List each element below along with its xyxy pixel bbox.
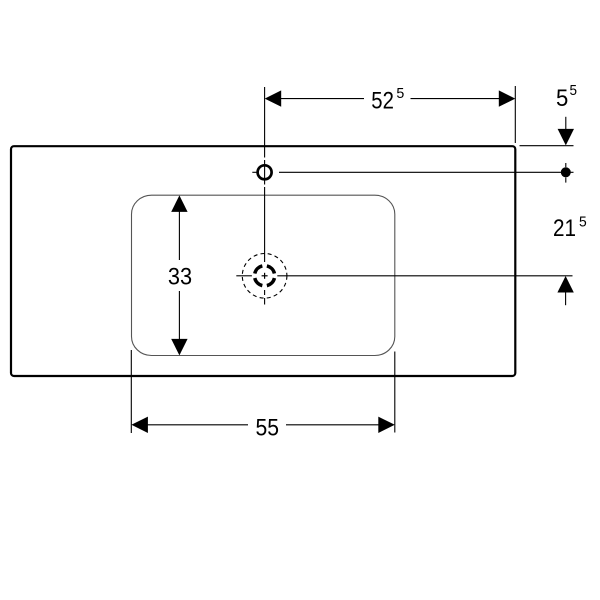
- tap hole: [258, 165, 272, 179]
- arrowhead left 55: [131, 417, 148, 433]
- vertical centerline through tap hole and drain: [264, 87, 266, 305]
- drain center plus mark: [262, 273, 268, 279]
- dimension line 52.5: [279, 98, 500, 100]
- arrowhead down 33: [171, 339, 187, 356]
- svg-text:21: 21: [553, 215, 576, 242]
- drain horizontal centerline: [236, 275, 572, 277]
- dimension 21.5 arrow up: [557, 276, 573, 293]
- dimension line 33: [178, 211, 180, 340]
- svg-text:33: 33: [168, 263, 192, 290]
- basin bowl inner outline: [132, 195, 395, 355]
- drain bold circle arcs: [255, 266, 275, 286]
- svg-text:5: 5: [556, 85, 568, 112]
- drain dashed circle: [242, 253, 287, 298]
- dimension line 55: [146, 424, 380, 426]
- extension line right for 55 dimension: [394, 352, 396, 433]
- top edge extension line to the right: [520, 145, 574, 147]
- extension line left for 55 dimension: [130, 350, 132, 433]
- arrowhead left 52.5: [265, 90, 282, 106]
- arrowhead right 55: [378, 417, 395, 433]
- dimension 5.5 arrow down: [565, 117, 567, 131]
- dimension text 55: [248, 412, 286, 440]
- svg-text:5: 5: [579, 215, 587, 231]
- dimension point dot on tap-hole line: [561, 167, 571, 177]
- dimension text 33: [162, 260, 197, 291]
- arrowhead right 52.5: [499, 90, 516, 106]
- dot tick marks: [565, 163, 567, 183]
- svg-text:5: 5: [570, 83, 578, 99]
- washbasin outer outline: [11, 146, 515, 376]
- tap hole horizontal centerline: [252, 171, 573, 173]
- extension line right for 52.5 dimension: [514, 86, 516, 143]
- arrowhead up 33: [171, 195, 187, 212]
- svg-text:55: 55: [256, 415, 280, 442]
- svg-text:5: 5: [396, 86, 404, 102]
- svg-text:52: 52: [371, 88, 394, 115]
- dimension text 52.5: [364, 86, 411, 111]
